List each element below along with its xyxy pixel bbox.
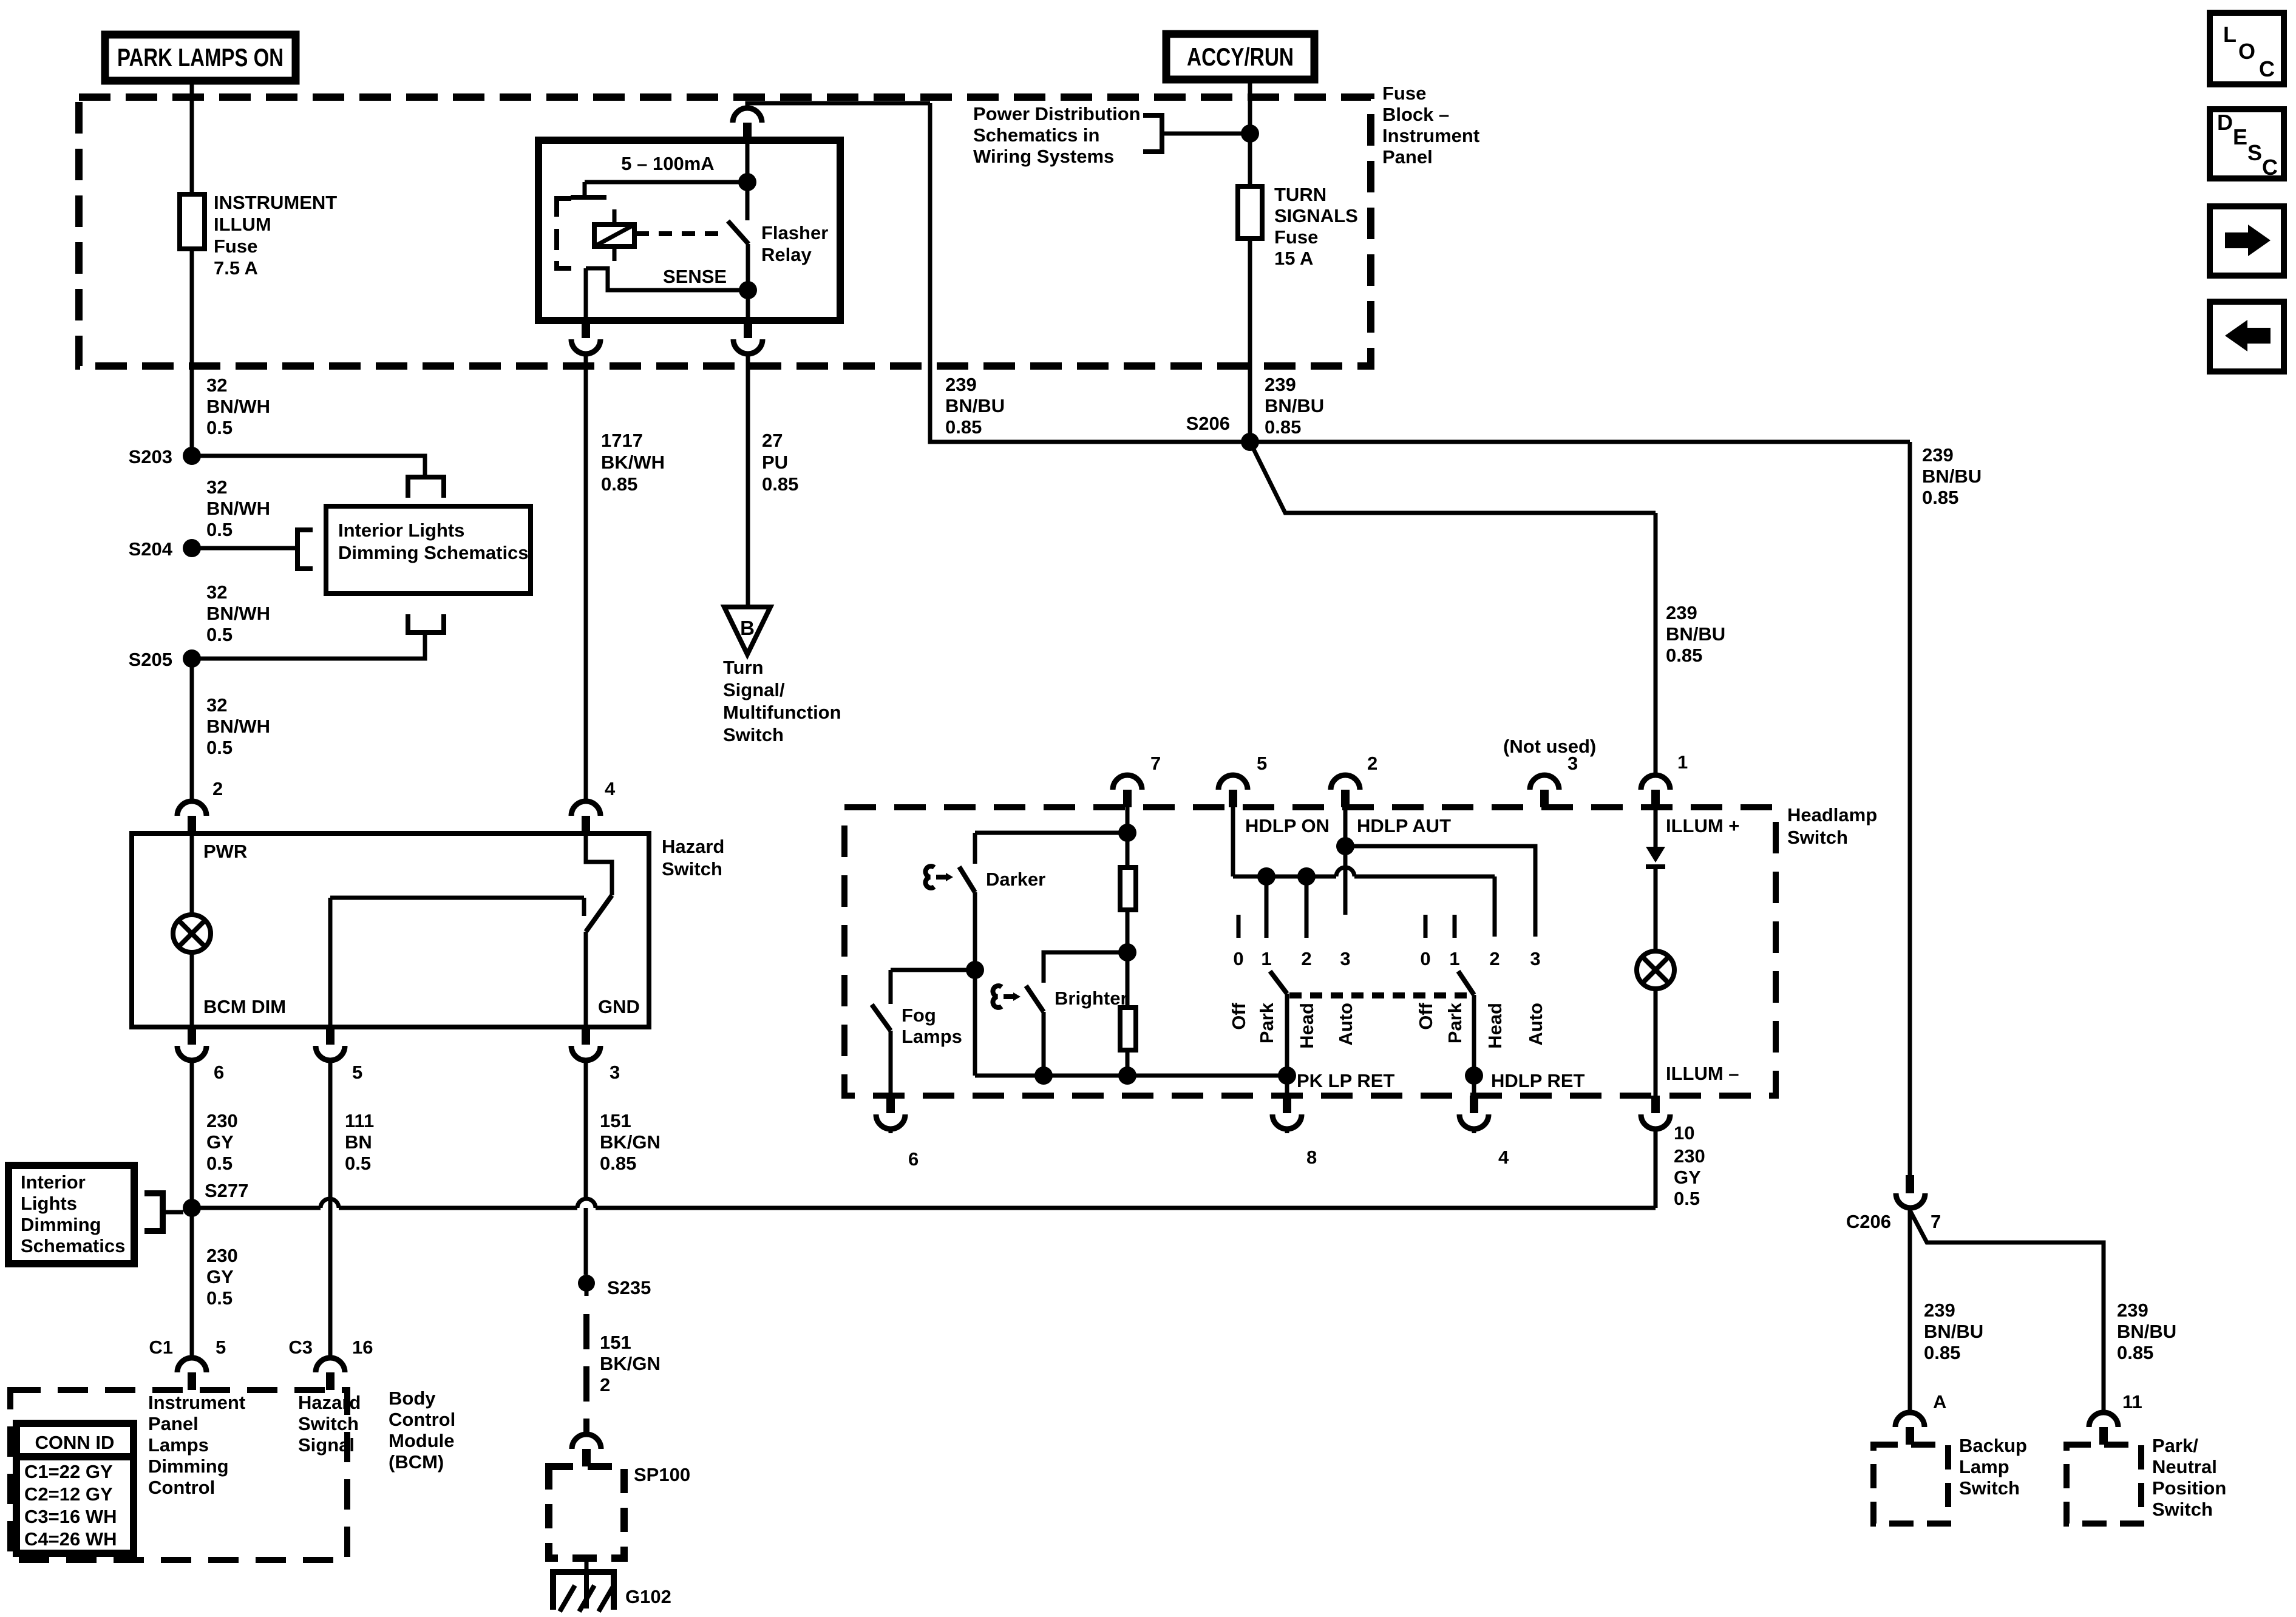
svg-text:Dimming Schematics: Dimming Schematics (338, 542, 529, 563)
connector pin 2 hazard switch (177, 801, 206, 816)
svg-text:Headlamp: Headlamp (1787, 804, 1877, 825)
svg-text:C2=12 GY: C2=12 GY (24, 1483, 113, 1505)
svg-text:Park: Park (1444, 1002, 1466, 1043)
svg-text:Off: Off (1228, 1002, 1249, 1029)
headlamp bottom bus (973, 970, 977, 1076)
CONN ID table (16, 1423, 134, 1553)
hazard switch signal contact (330, 896, 584, 900)
svg-text:INSTRUMENT: INSTRUMENT (214, 192, 337, 213)
svg-text:Turn: Turn (723, 657, 764, 678)
svg-text:BK/WH: BK/WH (601, 452, 665, 473)
relay linkage dashed (636, 231, 727, 236)
svg-text:0: 0 (1420, 948, 1430, 969)
svg-text:4: 4 (605, 778, 616, 799)
svg-text:G102: G102 (625, 1586, 671, 1607)
splice pack SP100 dashed box (549, 1466, 624, 1558)
connector pin 8 (1283, 1096, 1291, 1113)
connector pin 10 (1651, 1096, 1660, 1113)
svg-text:Park/: Park/ (2152, 1435, 2198, 1456)
ground G102 (585, 1558, 589, 1572)
svg-text:Switch: Switch (1787, 827, 1848, 848)
svg-text:Signal/: Signal/ (723, 679, 785, 700)
svg-text:11: 11 (2122, 1391, 2142, 1412)
svg-text:BN/BU: BN/BU (945, 395, 1005, 416)
svg-text:151: 151 (600, 1110, 631, 1131)
svg-text:Neutral: Neutral (2152, 1456, 2217, 1477)
wire C206 to park/neutral switch (1910, 1210, 2104, 1411)
svg-text:ILLUM –: ILLUM – (1666, 1063, 1739, 1084)
svg-text:111: 111 (345, 1110, 374, 1131)
splice S235 (578, 1275, 595, 1292)
svg-text:L: L (2223, 22, 2237, 47)
svg-text:27: 27 (762, 430, 783, 451)
svg-text:SENSE: SENSE (663, 266, 727, 287)
svg-text:3: 3 (610, 1062, 620, 1083)
relay coil dashed bracket (557, 198, 571, 217)
svg-text:10: 10 (1674, 1122, 1694, 1144)
svg-text:S235: S235 (607, 1277, 651, 1298)
svg-text:Instrument: Instrument (148, 1392, 245, 1413)
svg-text:7.5 A: 7.5 A (214, 257, 258, 279)
svg-text:Backup: Backup (1959, 1435, 2027, 1456)
svg-text:S206: S206 (1186, 413, 1230, 434)
svg-text:ILLUM +: ILLUM + (1666, 815, 1739, 836)
svg-text:1: 1 (1261, 948, 1271, 969)
brighter switch feed (1044, 952, 1127, 983)
svg-text:Hazard: Hazard (662, 836, 724, 857)
svg-text:2: 2 (1367, 753, 1377, 774)
svg-text:C206: C206 (1846, 1211, 1891, 1232)
svg-text:0.85: 0.85 (1924, 1342, 1960, 1363)
splice S204 (183, 539, 201, 557)
svg-text:Control: Control (389, 1409, 455, 1430)
wire S206 diagonal branch (1250, 442, 1656, 513)
svg-text:BN/WH: BN/WH (206, 603, 270, 624)
svg-text:C3: C3 (288, 1337, 313, 1358)
svg-text:S203: S203 (129, 446, 172, 467)
svg-text:2: 2 (600, 1374, 610, 1395)
svg-text:SIGNALS: SIGNALS (1274, 205, 1358, 226)
svg-text:0.85: 0.85 (600, 1153, 636, 1174)
relay coil feed wire (746, 140, 750, 182)
svg-text:PK LP RET: PK LP RET (1297, 1070, 1394, 1091)
wiper 2 HDLP RET (1458, 971, 1474, 995)
svg-text:6: 6 (214, 1062, 224, 1083)
connector pin 2 headlamp (1331, 775, 1360, 790)
relay switch (746, 182, 750, 220)
svg-text:ACCY/RUN: ACCY/RUN (1187, 42, 1294, 71)
wire S205 branch (192, 631, 425, 659)
svg-text:PWR: PWR (203, 841, 247, 862)
svg-text:0.85: 0.85 (1922, 487, 1958, 508)
svg-text:0.85: 0.85 (2117, 1342, 2153, 1363)
svg-text:C: C (2262, 155, 2278, 180)
svg-text:32: 32 (206, 375, 227, 396)
hazard lamp wire (190, 833, 194, 915)
svg-text:Multifunction: Multifunction (723, 702, 841, 723)
svg-text:Auto: Auto (1335, 1003, 1356, 1046)
svg-text:239: 239 (1265, 374, 1296, 395)
svg-text:Instrument: Instrument (1382, 125, 1479, 146)
svg-text:230: 230 (1674, 1145, 1705, 1167)
fog lamps branch (966, 961, 984, 979)
svg-text:BCM DIM: BCM DIM (203, 996, 286, 1017)
svg-text:ILLUM: ILLUM (214, 214, 271, 235)
connector relay pin right (744, 320, 752, 338)
connector relay pin left (582, 320, 590, 338)
svg-text:0.85: 0.85 (945, 416, 982, 438)
wire fuse to S206 (1248, 239, 1252, 442)
svg-text:SP100: SP100 (634, 1464, 690, 1485)
svg-text:1: 1 (1449, 948, 1459, 969)
svg-text:Fuse: Fuse (214, 236, 257, 257)
wire relay feed loop (930, 103, 1250, 442)
svg-text:Interior: Interior (21, 1171, 86, 1193)
rotary switch set 1 contacts (1237, 915, 1241, 938)
svg-text:0.85: 0.85 (1265, 416, 1301, 438)
svg-text:CONN ID: CONN ID (35, 1432, 115, 1453)
svg-text:239: 239 (1922, 444, 1954, 466)
svg-text:GND: GND (598, 996, 640, 1017)
wire right edge down to C206 (1908, 442, 1912, 1175)
svg-text:Relay: Relay (761, 244, 812, 265)
svg-text:Block –: Block – (1382, 104, 1449, 125)
connector stub to S277 (144, 1193, 163, 1231)
svg-text:Interior Lights: Interior Lights (338, 520, 464, 541)
svg-text:BK/GN: BK/GN (600, 1353, 661, 1374)
connector pin 3 GND (582, 1027, 590, 1045)
svg-text:BN/BU: BN/BU (1666, 623, 1725, 645)
box Interior Lights Dimming Schematics (upper) (326, 506, 531, 594)
svg-text:230: 230 (206, 1110, 238, 1131)
svg-text:C1: C1 (149, 1337, 173, 1358)
svg-text:GY: GY (206, 1131, 234, 1153)
svg-text:BN/BU: BN/BU (2117, 1321, 2176, 1342)
svg-text:BN/BU: BN/BU (1265, 395, 1324, 416)
fuse INSTRUMENT ILLUM 7.5A (180, 194, 205, 249)
svg-text:Park: Park (1256, 1002, 1277, 1043)
svg-text:0.5: 0.5 (206, 1153, 233, 1174)
svg-text:BK/GN: BK/GN (600, 1131, 661, 1153)
svg-text:PU: PU (762, 452, 788, 473)
svg-text:Switch: Switch (723, 724, 784, 745)
headlamp switch dashed box (844, 807, 1776, 1096)
svg-text:Head: Head (1296, 1003, 1317, 1049)
relay coil contact bar (571, 195, 606, 200)
svg-text:151: 151 (600, 1332, 631, 1353)
svg-text:0.5: 0.5 (206, 519, 233, 540)
wire S203 branch (192, 456, 425, 475)
svg-text:7: 7 (1150, 753, 1161, 774)
wire C206 to backup lamp switch (1908, 1208, 1912, 1411)
svg-text:Dimming: Dimming (21, 1214, 101, 1235)
fuse TURN SIGNALS 15A (1238, 186, 1262, 239)
svg-text:8: 8 (1306, 1147, 1317, 1168)
svg-text:BN/BU: BN/BU (1922, 466, 1982, 487)
brighter switch (1026, 986, 1044, 1012)
svg-text:GY: GY (206, 1266, 234, 1287)
fuse block dashed boundary (79, 97, 1371, 366)
fog lamps switch (872, 1005, 891, 1031)
svg-text:Switch: Switch (1959, 1477, 2020, 1499)
backup lamp switch dashed box (1873, 1445, 1948, 1524)
box Interior Lights Dimming Schematics (lower) (8, 1165, 134, 1264)
svg-text:5: 5 (1257, 753, 1267, 774)
svg-text:Control: Control (148, 1477, 215, 1498)
svg-text:Auto: Auto (1525, 1003, 1546, 1046)
svg-text:7: 7 (1931, 1211, 1941, 1232)
svg-text:1: 1 (1677, 751, 1688, 773)
rheostat resistor upper (1126, 833, 1130, 867)
svg-text:Panel: Panel (1382, 146, 1433, 168)
svg-text:D: D (2217, 110, 2233, 135)
relay sense path (586, 268, 748, 290)
svg-text:32: 32 (206, 694, 227, 716)
connector pin 4 headlamp (1470, 1096, 1478, 1113)
wiper 1 PK LP RET (1270, 971, 1287, 994)
svg-text:HDLP RET: HDLP RET (1491, 1070, 1585, 1091)
wire down to headlamp pin 1 (1654, 513, 1658, 775)
svg-text:0.5: 0.5 (206, 624, 233, 645)
connector relay top pin (747, 103, 930, 107)
svg-text:Dimming: Dimming (148, 1456, 229, 1477)
icon DESC (2210, 109, 2284, 178)
splice S277 (183, 1199, 201, 1217)
connector pin 6 fog (886, 1096, 895, 1113)
svg-text:32: 32 (206, 476, 227, 498)
svg-text:230: 230 (206, 1245, 238, 1266)
wire fuse to S203 (190, 249, 194, 456)
svg-text:BN/WH: BN/WH (206, 498, 270, 519)
svg-text:S277: S277 (205, 1180, 248, 1201)
svg-text:HDLP AUT: HDLP AUT (1357, 815, 1451, 836)
svg-text:2: 2 (212, 778, 223, 799)
wire S206 to right edge (1250, 440, 1910, 444)
svg-text:3: 3 (1530, 948, 1540, 969)
svg-text:239: 239 (1666, 602, 1697, 623)
connector pin 7 (1113, 775, 1142, 790)
svg-text:PARK LAMPS ON: PARK LAMPS ON (117, 43, 284, 72)
flasher relay box (538, 140, 840, 320)
svg-text:C1=22 GY: C1=22 GY (24, 1461, 113, 1482)
svg-text:S: S (2247, 140, 2262, 165)
svg-text:Wiring Systems: Wiring Systems (973, 146, 1114, 167)
svg-text:5 – 100mA: 5 – 100mA (621, 153, 714, 174)
svg-text:BN/BU: BN/BU (1924, 1321, 1983, 1342)
turn signal triangle connector B (746, 354, 750, 607)
svg-text:Lights: Lights (21, 1193, 77, 1214)
svg-text:Darker: Darker (986, 869, 1045, 890)
rheostat resistor lower (1126, 952, 1130, 1008)
svg-text:2: 2 (1489, 948, 1500, 969)
svg-text:O: O (2238, 39, 2255, 64)
svg-text:16: 16 (352, 1337, 373, 1358)
svg-text:Module: Module (389, 1430, 455, 1451)
svg-text:32: 32 (206, 581, 227, 603)
rotary switch set 2 contacts (1424, 915, 1428, 938)
svg-text:Position: Position (2152, 1477, 2226, 1499)
svg-text:GY: GY (1674, 1167, 1701, 1188)
svg-text:5: 5 (352, 1062, 362, 1083)
svg-text:Off: Off (1415, 1002, 1436, 1029)
connector into SP100 (572, 1434, 601, 1449)
connector C206 pin 7 (1906, 1175, 1914, 1193)
hazard switch internals (586, 833, 612, 895)
svg-text:Lamp: Lamp (1959, 1456, 2009, 1477)
title box ACCY/RUN (1166, 34, 1314, 80)
svg-text:BN: BN (345, 1131, 372, 1153)
svg-text:Hazard: Hazard (298, 1392, 361, 1413)
svg-text:239: 239 (945, 374, 977, 395)
svg-text:Switch: Switch (2152, 1499, 2213, 1520)
svg-text:1717: 1717 (601, 430, 643, 451)
svg-text:0.85: 0.85 (601, 473, 637, 495)
svg-text:B: B (740, 617, 755, 639)
power distribution tap (1241, 124, 1259, 143)
svg-text:Head: Head (1484, 1003, 1506, 1049)
connector pin 5 headlamp (1218, 775, 1248, 790)
wire ACCY/RUN feed (1248, 80, 1252, 186)
svg-text:0.85: 0.85 (1666, 645, 1702, 666)
svg-text:0.5: 0.5 (206, 1287, 233, 1309)
svg-text:Fuse: Fuse (1274, 226, 1318, 248)
wire S204 branch (192, 546, 296, 551)
headlamp pin7 internal feed (1126, 807, 1130, 833)
svg-text:Body: Body (389, 1388, 436, 1409)
dashed wire 151 BK/GN 2 (585, 1283, 589, 1296)
connector pin 1 ILLUM+ (1641, 775, 1670, 790)
connector pin 6 BCM DIM (188, 1027, 196, 1045)
svg-text:(Not used): (Not used) (1503, 736, 1596, 757)
splice S205 (183, 649, 201, 668)
connector pin 5 hazard signal (326, 1027, 335, 1045)
svg-text:Brighter: Brighter (1055, 988, 1128, 1009)
connector pin 3 not used (1530, 775, 1559, 790)
svg-text:A: A (1933, 1391, 1946, 1412)
svg-text:Schematics: Schematics (21, 1235, 125, 1256)
svg-text:Fog: Fog (902, 1005, 936, 1026)
hazard indicator lamp (173, 915, 211, 952)
park/neutral position switch dashed box (2067, 1445, 2141, 1524)
svg-text:0.5: 0.5 (206, 737, 233, 758)
svg-text:6: 6 (908, 1148, 919, 1170)
svg-text:BN/WH: BN/WH (206, 396, 270, 417)
svg-text:3: 3 (1340, 948, 1350, 969)
BCM dashed box (10, 1390, 347, 1560)
svg-text:Schematics in: Schematics in (973, 124, 1099, 146)
svg-text:Lamps: Lamps (148, 1434, 209, 1456)
wire S205 to hazard switch pin 2 (190, 659, 194, 801)
wire PARK LAMPS ON to fuse (190, 81, 194, 194)
relay coil (613, 209, 617, 225)
hazard switch box (132, 833, 649, 1027)
svg-text:BN/WH: BN/WH (206, 716, 270, 737)
svg-text:Panel: Panel (148, 1413, 199, 1434)
diode (1646, 847, 1665, 863)
svg-text:Signal: Signal (298, 1434, 355, 1456)
connector stub left of interior-lights box (297, 530, 313, 569)
darker switch (959, 867, 975, 892)
icon arrow right (2210, 206, 2284, 276)
svg-text:0.85: 0.85 (762, 473, 798, 495)
connector stub above interior-lights box (408, 477, 444, 498)
svg-text:HDLP ON: HDLP ON (1245, 815, 1330, 836)
splice S206 (1241, 433, 1259, 451)
splice S203 (183, 447, 201, 465)
svg-text:Power Distribution: Power Distribution (973, 103, 1141, 124)
svg-text:15 A: 15 A (1274, 248, 1313, 269)
wiper linkage dashed (1289, 992, 1474, 998)
svg-text:Lamps: Lamps (902, 1026, 962, 1047)
svg-text:TURN: TURN (1274, 184, 1326, 205)
svg-text:0.5: 0.5 (1674, 1188, 1700, 1209)
svg-text:C: C (2259, 56, 2275, 81)
connector pin 4 hazard switch (571, 801, 600, 816)
svg-text:5: 5 (216, 1337, 226, 1358)
svg-text:0: 0 (1233, 948, 1243, 969)
svg-text:E: E (2233, 124, 2247, 149)
S277 bus to headlamp pin 10 (192, 1206, 321, 1210)
icon LOC (2210, 13, 2284, 84)
svg-text:Fuse: Fuse (1382, 83, 1426, 104)
svg-text:S204: S204 (129, 538, 173, 560)
HDLP ON feed from pin 5 (1231, 807, 1235, 876)
svg-text:239: 239 (2117, 1300, 2148, 1321)
svg-text:S205: S205 (129, 649, 172, 670)
illumination lamp (1637, 951, 1674, 989)
svg-text:C3=16 WH: C3=16 WH (24, 1506, 117, 1527)
svg-text:0.5: 0.5 (206, 417, 233, 438)
title box PARK LAMPS ON (105, 35, 296, 81)
HDLP AUT feed from pin 2 (1343, 807, 1348, 915)
svg-text:239: 239 (1924, 1300, 1955, 1321)
svg-text:4: 4 (1498, 1147, 1509, 1168)
icon arrow left (2210, 302, 2284, 371)
connector stub below interior-lights box (408, 614, 444, 632)
svg-text:Switch: Switch (662, 858, 722, 880)
svg-text:2: 2 (1301, 948, 1311, 969)
svg-text:(BCM): (BCM) (389, 1451, 444, 1473)
svg-text:Flasher: Flasher (761, 222, 828, 243)
svg-text:0.5: 0.5 (345, 1153, 371, 1174)
svg-text:Switch: Switch (298, 1413, 359, 1434)
svg-text:C4=26 WH: C4=26 WH (24, 1528, 117, 1550)
